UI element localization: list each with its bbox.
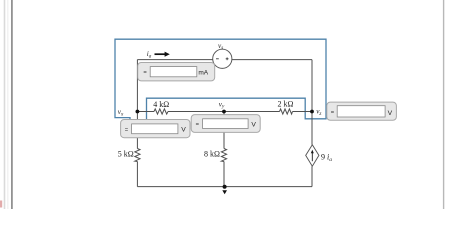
svg-text:=: = (125, 127, 129, 133)
svg-text:8 kΩ: 8 kΩ (204, 149, 220, 158)
svg-text:V: V (181, 127, 186, 134)
svg-text:V: V (388, 110, 393, 117)
svg-text:5 kΩ: 5 kΩ (118, 149, 134, 158)
svg-text:=: = (331, 110, 335, 116)
svg-text:2 kΩ: 2 kΩ (278, 100, 294, 109)
svg-text:mA: mA (198, 70, 208, 77)
svg-text:V: V (251, 122, 256, 129)
svg-text:4 kΩ: 4 kΩ (153, 100, 169, 109)
